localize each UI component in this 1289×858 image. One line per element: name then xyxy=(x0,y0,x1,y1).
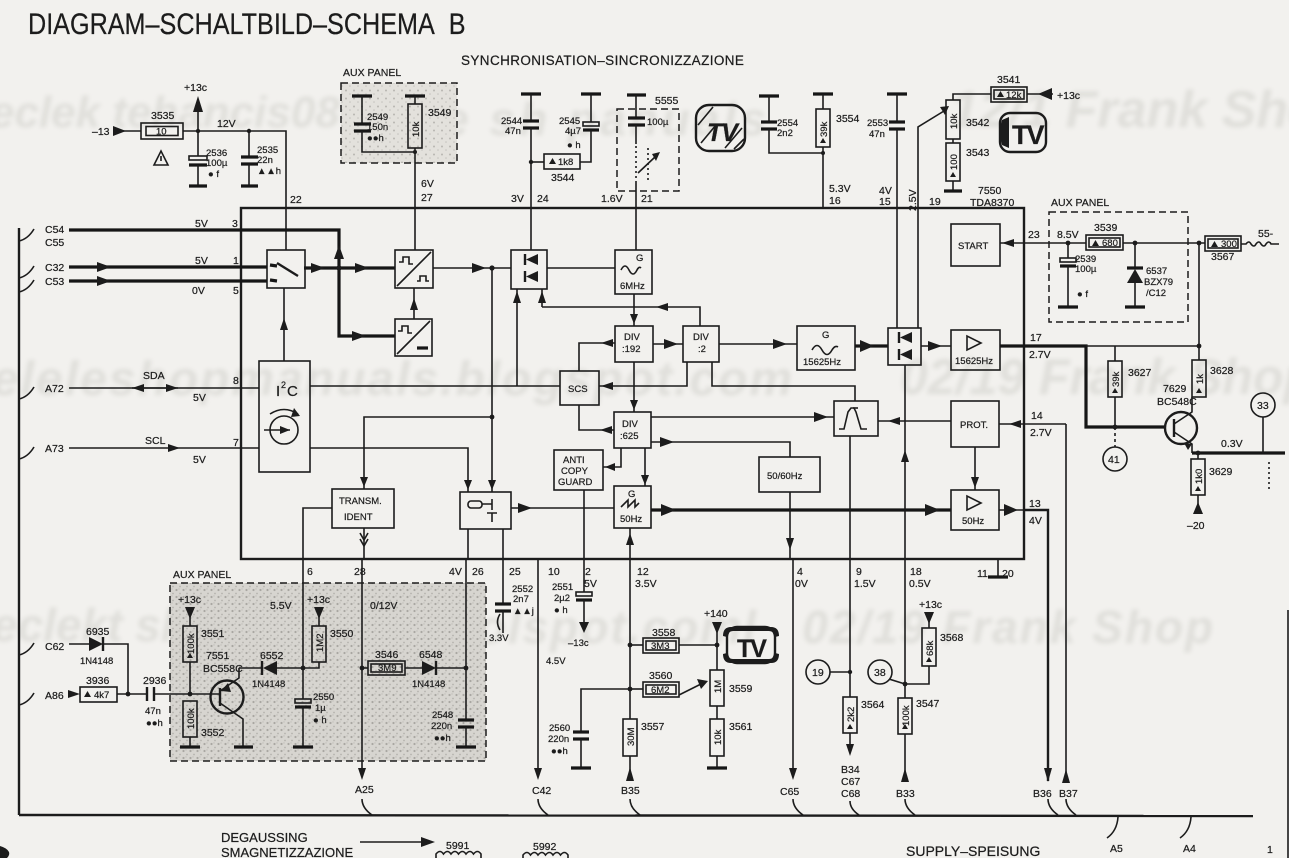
resistor R3551 100k xyxy=(183,626,197,662)
svg-text:3.3V: 3.3V xyxy=(489,633,509,644)
svg-text:SCS: SCS xyxy=(568,384,588,395)
svg-text:220n: 220n xyxy=(431,721,452,732)
svg-text:1.6V: 1.6V xyxy=(601,193,623,205)
wire div2 to G15625 xyxy=(719,343,797,345)
wire to base junction xyxy=(189,662,191,694)
tick B36 xyxy=(1048,799,1058,815)
divider DIV:192 xyxy=(615,326,653,362)
resistor R3541 12k xyxy=(953,94,991,100)
svg-text:0/12V: 0/12V xyxy=(370,600,397,612)
svg-text:A5: A5 xyxy=(1110,843,1123,855)
wire SCS to div625 xyxy=(579,405,614,430)
svg-text:19: 19 xyxy=(812,667,824,679)
svg-text:2k2: 2k2 xyxy=(846,707,857,722)
resistor R3549 xyxy=(405,94,425,97)
svg-text:18: 18 xyxy=(910,566,922,578)
capacitor C2554 2n2 xyxy=(759,94,779,97)
scan corner blob xyxy=(0,846,9,858)
pin26 wire through panel xyxy=(465,559,467,719)
tick B37 xyxy=(1066,799,1076,815)
capacitor C2551 2u2 on pin 2 xyxy=(583,559,585,592)
tick A25 xyxy=(362,799,372,815)
ground xyxy=(241,184,258,187)
wire div625 to 50/60Hz xyxy=(651,442,790,457)
svg-text:100µ: 100µ xyxy=(206,158,228,169)
wiper arrow to 3559 xyxy=(679,684,701,695)
capacitor C2552 2n7 on pin 25 xyxy=(502,559,504,603)
svg-text:0.3V: 0.3V xyxy=(1221,438,1243,450)
wire pin17 thick elbow xyxy=(1024,346,1166,427)
wire thick video line pin3 C54/C55 xyxy=(69,230,395,336)
svg-text:50/60Hz: 50/60Hz xyxy=(767,471,803,482)
wire to B33 xyxy=(904,734,906,781)
pulse bottom riser pin9 xyxy=(849,436,851,559)
svg-text:2553: 2553 xyxy=(867,118,888,129)
node -13c xyxy=(579,622,589,633)
pin 15 riser xyxy=(896,208,898,328)
wire pin7 SCL into I2C xyxy=(241,447,259,449)
capacitor C2539 100u xyxy=(1067,243,1069,258)
svg-text:3549: 3549 xyxy=(428,107,452,119)
svg-text:39k: 39k xyxy=(1111,371,1122,387)
svg-text:0V: 0V xyxy=(795,578,808,590)
svg-text:+13c: +13c xyxy=(178,594,201,606)
svg-text:2.5V: 2.5V xyxy=(907,189,919,211)
svg-text:150n: 150n xyxy=(367,122,388,133)
svg-text:2560: 2560 xyxy=(549,723,570,734)
svg-text:33: 33 xyxy=(1257,400,1269,412)
svg-text:2936: 2936 xyxy=(143,675,167,687)
svg-text:● f: ● f xyxy=(208,169,219,180)
svg-text:15625Hz: 15625Hz xyxy=(955,356,993,367)
pin 12 up into G50 xyxy=(629,528,631,559)
svg-text:3564: 3564 xyxy=(861,699,885,711)
svg-text:●●h: ●●h xyxy=(434,733,451,744)
I2C block xyxy=(259,361,310,472)
svg-text:6548: 6548 xyxy=(419,649,443,661)
tick A4 xyxy=(1180,817,1191,838)
svg-text:2: 2 xyxy=(281,380,286,390)
svg-text:47n: 47n xyxy=(505,126,521,137)
svg-text:4.5V: 4.5V xyxy=(546,656,566,667)
svg-text:47n: 47n xyxy=(869,129,885,140)
wire 3542-3543 xyxy=(952,139,954,143)
wire div625 down to ACG junction and G50 xyxy=(603,448,621,467)
svg-text:15: 15 xyxy=(879,196,891,208)
svg-text:11: 11 xyxy=(977,568,988,580)
pin28 wire through panel to A25 xyxy=(361,559,363,768)
resistor R3547 100k xyxy=(898,698,912,734)
TRANSM IDENT block xyxy=(332,489,394,528)
wire to pin 27 xyxy=(414,148,416,208)
pin12 net: wire down xyxy=(629,559,631,719)
tick B34 xyxy=(850,801,859,815)
wire video ident out to G50 xyxy=(511,507,614,509)
svg-text:100: 100 xyxy=(949,154,960,170)
svg-text:7629: 7629 xyxy=(1163,383,1187,395)
left bus wire xyxy=(18,228,20,815)
svg-text:3543: 3543 xyxy=(966,147,990,159)
svg-text:B36: B36 xyxy=(1033,788,1052,800)
wire junction video riser xyxy=(491,268,493,492)
svg-text:41: 41 xyxy=(1108,454,1120,466)
svg-text:1k: 1k xyxy=(1195,374,1206,384)
resistor R3568 68k xyxy=(922,628,936,666)
svg-text:50Hz: 50Hz xyxy=(962,516,984,527)
capacitor C2536 100u xyxy=(197,131,199,156)
svg-text:3560: 3560 xyxy=(649,670,673,682)
wire switch output xyxy=(304,266,395,269)
svg-text:–20: –20 xyxy=(1187,520,1205,532)
wire 3627 bottom to base line xyxy=(1114,397,1116,427)
svg-text:2n2: 2n2 xyxy=(777,128,793,139)
svg-text:1M: 1M xyxy=(713,680,724,693)
wire DIV2 feedback xyxy=(542,307,700,326)
pin 21 stub xyxy=(635,208,637,250)
svg-text:5555: 5555 xyxy=(655,95,679,107)
svg-text:2548: 2548 xyxy=(432,710,453,721)
svg-text:47n: 47n xyxy=(145,706,161,717)
capacitor 100u in 5555 xyxy=(627,93,646,96)
svg-text:6MHz: 6MHz xyxy=(620,281,645,292)
svg-text:1N4148: 1N4148 xyxy=(80,656,113,667)
svg-text:START: START xyxy=(958,241,988,252)
connector C54/C55 xyxy=(19,229,34,241)
svg-text:●●h: ●●h xyxy=(367,133,384,144)
svg-text:C: C xyxy=(287,383,298,400)
svg-text:5V: 5V xyxy=(195,255,208,267)
wire block2 out up to block1 xyxy=(413,288,415,319)
svg-text:14: 14 xyxy=(1031,410,1043,422)
svg-text:TV: TV xyxy=(1012,120,1044,150)
START block xyxy=(951,224,1000,266)
svg-text:3V: 3V xyxy=(511,193,524,205)
svg-text:C68: C68 xyxy=(841,788,860,800)
svg-text:+140: +140 xyxy=(704,608,728,620)
svg-text:22: 22 xyxy=(290,194,302,206)
oscillator G 6MHz xyxy=(615,250,652,294)
capacitor C2560 220n xyxy=(581,689,630,731)
svg-text:25: 25 xyxy=(509,566,521,578)
wire prot to pulse xyxy=(878,420,951,422)
ground under 3543 xyxy=(952,181,954,190)
svg-text:4: 4 xyxy=(797,566,803,578)
svg-text:B33: B33 xyxy=(896,788,915,800)
pin 14 wire to PROT xyxy=(999,423,1066,425)
svg-text:3568: 3568 xyxy=(940,632,964,644)
wire xyxy=(122,130,141,132)
svg-text:3627: 3627 xyxy=(1128,367,1152,379)
svg-text:C67: C67 xyxy=(841,776,860,788)
svg-text:TRANSM.: TRANSM. xyxy=(339,496,382,507)
svg-text:1: 1 xyxy=(1267,844,1273,856)
wire amp2 to pin13 xyxy=(999,509,1024,511)
svg-text:23: 23 xyxy=(1028,229,1040,241)
wire pin14 to B37 xyxy=(1065,424,1067,781)
svg-text:13: 13 xyxy=(1029,498,1041,510)
wire div2 bottom left to SCS xyxy=(599,362,687,386)
svg-text:DIV: DIV xyxy=(624,332,641,343)
svg-text:3567: 3567 xyxy=(1211,251,1235,263)
pin 27 stub xyxy=(414,208,416,250)
svg-text:I: I xyxy=(276,383,280,400)
pin 22 stub into switch xyxy=(285,208,287,250)
svg-text:3: 3 xyxy=(232,218,238,230)
svg-text:2: 2 xyxy=(585,566,591,578)
svg-text:100µ: 100µ xyxy=(647,117,669,128)
svg-text:1µ: 1µ xyxy=(315,703,326,714)
svg-text:A4: A4 xyxy=(1183,843,1196,855)
capacitor C2550 1u xyxy=(295,699,311,703)
bottom bus wire xyxy=(19,815,1253,816)
wire I2C to SCS xyxy=(310,385,560,387)
wire xyxy=(197,110,199,133)
svg-text:▲▲h: ▲▲h xyxy=(257,166,281,177)
capacitor C2553 47n xyxy=(887,92,907,95)
wire pin23 into start xyxy=(1000,242,1024,244)
svg-text:●●h: ●●h xyxy=(551,746,568,757)
ground pin11/20 xyxy=(997,559,999,576)
svg-text:IDENT: IDENT xyxy=(344,512,373,523)
wire div192 to div2 xyxy=(653,343,683,345)
svg-text:ANTI: ANTI xyxy=(563,455,585,466)
svg-text:DIV: DIV xyxy=(693,332,710,343)
wire pin10 to C42 xyxy=(537,559,539,770)
svg-text:TDA8370: TDA8370 xyxy=(970,197,1015,209)
tick B35 xyxy=(630,799,640,815)
SCS block xyxy=(560,371,599,405)
svg-text:2.7V: 2.7V xyxy=(1029,349,1051,361)
connector A72 SDA xyxy=(19,387,34,399)
svg-text:16: 16 xyxy=(829,195,841,207)
IC box TDA8370 U7550 xyxy=(241,208,1024,559)
svg-text:1k8: 1k8 xyxy=(558,157,573,168)
svg-text:SMAGNETIZZAZIONE: SMAGNETIZZAZIONE xyxy=(221,845,354,858)
wire amp1 to pin17 thick xyxy=(1000,344,1024,347)
+13c feed arrow xyxy=(1027,93,1053,95)
wire G15625 to pd2 thick xyxy=(855,344,888,347)
svg-text:22n: 22n xyxy=(257,155,273,166)
wire pd1 to G6MHz xyxy=(547,267,615,269)
wire to pin 16 xyxy=(822,147,824,208)
tick C42 xyxy=(538,799,548,815)
svg-text:C54: C54 xyxy=(45,224,64,236)
svg-text:3628: 3628 xyxy=(1210,365,1234,377)
svg-text:8: 8 xyxy=(233,375,239,387)
amplifier 50Hz xyxy=(951,490,999,530)
svg-text:C65: C65 xyxy=(780,786,799,798)
svg-text:A73: A73 xyxy=(45,443,64,455)
wire div192 down to div625 xyxy=(633,362,635,412)
wire 3567 to edge 55- xyxy=(1241,242,1279,246)
svg-text:2µ2: 2µ2 xyxy=(554,593,570,604)
svg-text:+13c: +13c xyxy=(1057,90,1080,102)
tick A5 xyxy=(1107,817,1118,838)
capacitor C2548 220n xyxy=(458,718,474,721)
svg-text:5V: 5V xyxy=(195,218,208,230)
svg-text:3551: 3551 xyxy=(201,628,225,640)
resistor R3936 4k7 xyxy=(80,687,117,702)
potentiometer R3559 1M xyxy=(710,670,724,706)
capacitor C2549 150n xyxy=(352,94,372,97)
svg-text:C53: C53 xyxy=(45,276,64,288)
wire div625 to pulse shaper xyxy=(651,416,834,418)
wire div2 bottom right to pulse shaper xyxy=(712,362,855,401)
connector A86 xyxy=(19,693,34,705)
svg-text:G: G xyxy=(636,253,643,264)
oscillator G 50Hz xyxy=(614,486,651,528)
wire 3550 to junction xyxy=(303,662,319,668)
resistor R3546 3M9 xyxy=(362,667,368,669)
arrow to 5991 xyxy=(360,841,424,843)
svg-text:4µ7: 4µ7 xyxy=(565,126,581,137)
svg-text:20: 20 xyxy=(1002,568,1014,580)
svg-text:12k: 12k xyxy=(1006,90,1022,101)
svg-text:1M2: 1M2 xyxy=(315,634,326,652)
node 41 circle xyxy=(1114,427,1116,447)
svg-text:2n7: 2n7 xyxy=(513,594,529,605)
svg-text:100k: 100k xyxy=(186,708,197,729)
wire emitter 0.3V thick xyxy=(1192,451,1285,454)
svg-text:AUX PANEL: AUX PANEL xyxy=(1051,197,1109,209)
svg-text:▲▲j: ▲▲j xyxy=(513,606,534,617)
svg-text:BZX79: BZX79 xyxy=(1144,277,1173,288)
svg-text:3552: 3552 xyxy=(201,727,225,739)
dotted stub right edge xyxy=(1268,462,1270,492)
svg-text:SCL: SCL xyxy=(145,435,166,447)
wire pin4 to C65 xyxy=(792,559,794,770)
svg-text:6935: 6935 xyxy=(86,626,110,638)
divider DIV:625 xyxy=(614,412,651,448)
svg-text:G: G xyxy=(822,330,829,341)
resistor R3554 39k xyxy=(813,92,833,95)
wire thin to 3628 junction xyxy=(1086,345,1199,347)
resistor R3552 100k xyxy=(183,701,197,737)
wire pd2 to amp1 xyxy=(921,345,951,347)
svg-text:SDA: SDA xyxy=(143,370,165,382)
svg-text:1: 1 xyxy=(233,255,239,267)
svg-text:–13c: –13c xyxy=(568,638,589,649)
PROT block xyxy=(951,401,999,447)
svg-text:TV: TV xyxy=(707,119,740,147)
capacitor C2544 47n xyxy=(521,92,541,95)
svg-text:26: 26 xyxy=(472,566,484,578)
svg-text:3547: 3547 xyxy=(916,698,940,710)
svg-text:6M2: 6M2 xyxy=(651,685,669,696)
trimmer symbol xyxy=(635,146,637,182)
svg-text:5V: 5V xyxy=(584,578,597,590)
svg-text:39k: 39k xyxy=(819,121,830,137)
resistor R3560 6M2 xyxy=(630,688,643,690)
svg-text:3629: 3629 xyxy=(1209,466,1233,478)
svg-text:3550: 3550 xyxy=(330,628,354,640)
svg-text:COPY: COPY xyxy=(561,466,589,477)
connector C32 xyxy=(19,266,34,278)
node 19 circle xyxy=(806,660,830,684)
svg-text:10k: 10k xyxy=(411,121,422,137)
svg-text::192: :192 xyxy=(622,344,641,355)
resistor R3564 2k2 xyxy=(843,697,857,733)
svg-text:7550: 7550 xyxy=(978,185,1002,197)
wire 12V rail xyxy=(183,131,286,208)
video ident block xyxy=(460,492,511,529)
svg-text:28: 28 xyxy=(354,566,366,578)
50/60Hz block xyxy=(759,457,820,492)
svg-text:B35: B35 xyxy=(621,785,640,797)
svg-text:AUX PANEL: AUX PANEL xyxy=(343,67,401,79)
svg-text:4V: 4V xyxy=(1029,515,1042,527)
wire G6MHz down to DIV192 xyxy=(633,294,635,326)
svg-text:5V: 5V xyxy=(193,454,206,466)
svg-text:DEGAUSSING: DEGAUSSING xyxy=(221,830,308,845)
svg-text:BC548C: BC548C xyxy=(1157,396,1197,408)
svg-text:+13c: +13c xyxy=(307,594,330,606)
wire 50/60 down riser xyxy=(789,492,791,559)
right edge artifacts xyxy=(1287,610,1289,858)
node 33 circle xyxy=(1251,393,1275,417)
wire pin 23 to panel xyxy=(1024,242,1086,244)
svg-text:680: 680 xyxy=(1102,238,1118,249)
wire pin8 SDA into I2C xyxy=(241,387,259,389)
svg-text:C55: C55 xyxy=(45,237,64,249)
svg-text:220n: 220n xyxy=(548,734,569,745)
svg-text:7551: 7551 xyxy=(206,650,230,662)
wire C53 line pin5 xyxy=(69,279,267,282)
svg-text:B34: B34 xyxy=(841,764,860,776)
svg-text:3M9: 3M9 xyxy=(378,663,396,674)
svg-text:3546: 3546 xyxy=(375,649,399,661)
pin6 wire through panel xyxy=(302,559,304,699)
resistor R3542 10k xyxy=(946,100,960,139)
resistor R3539 680 xyxy=(1086,235,1123,250)
svg-text:5V: 5V xyxy=(193,392,206,404)
svg-text:3541: 3541 xyxy=(997,74,1021,86)
node 38 circle xyxy=(868,660,892,684)
svg-text:30M: 30M xyxy=(626,727,637,746)
sync separator block 2 xyxy=(395,319,432,356)
svg-text:17: 17 xyxy=(1030,332,1042,344)
svg-text:C42: C42 xyxy=(532,785,551,797)
svg-text:SUPPLY–SPEISUNG: SUPPLY–SPEISUNG xyxy=(906,843,1040,858)
svg-text:38: 38 xyxy=(874,667,886,679)
svg-text:3542: 3542 xyxy=(966,117,990,129)
svg-text:A25: A25 xyxy=(355,784,374,796)
svg-text:C62: C62 xyxy=(45,641,64,653)
svg-text:100k: 100k xyxy=(901,705,912,726)
svg-text:5: 5 xyxy=(233,285,239,297)
svg-text:4k7: 4k7 xyxy=(94,690,109,701)
wire to pin 21 xyxy=(635,182,637,208)
pin 19 wire with 2.5V xyxy=(918,111,944,208)
connector C53 xyxy=(19,280,34,292)
capacitor C2535 22n xyxy=(248,131,250,156)
ground xyxy=(189,184,207,187)
svg-text::625: :625 xyxy=(620,431,639,442)
svg-text:5.3V: 5.3V xyxy=(829,183,851,195)
svg-text:3554: 3554 xyxy=(836,113,860,125)
wire I2C riser to phase det1 xyxy=(516,289,518,386)
svg-text:3544: 3544 xyxy=(551,172,575,184)
svg-text:27: 27 xyxy=(421,192,433,204)
wire pin13 to B36 xyxy=(1024,510,1048,781)
svg-text:● f: ● f xyxy=(1077,289,1088,300)
resistor R3627 39k xyxy=(1114,346,1116,361)
phase detector 1 xyxy=(511,250,547,289)
svg-text:6552: 6552 xyxy=(260,650,284,662)
svg-text:1.5V: 1.5V xyxy=(854,578,876,590)
svg-text:3561: 3561 xyxy=(729,721,753,733)
resistor R3535 value 10 xyxy=(141,123,183,139)
